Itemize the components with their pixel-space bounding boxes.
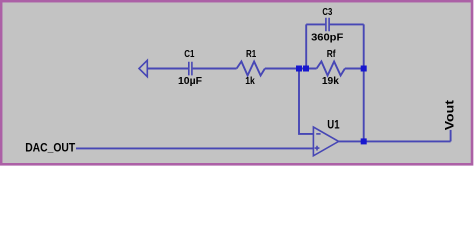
svg-text:Vout: Vout — [442, 100, 456, 130]
svg-text:C1: C1 — [184, 49, 195, 60]
resistor Rf — [317, 62, 345, 76]
svg-text:DAC_OUT: DAC_OUT — [25, 141, 76, 155]
wire — [299, 69, 313, 134]
wire — [265, 68, 317, 70]
svg-text:10µF: 10µF — [178, 76, 202, 87]
resistor R1 — [237, 62, 265, 76]
wire — [345, 68, 364, 70]
wire — [305, 24, 307, 68]
node junction — [296, 66, 302, 72]
wire — [306, 23, 325, 25]
capacitor C3 — [326, 18, 329, 31]
svg-text:Rf: Rf — [327, 49, 336, 60]
wire — [339, 140, 451, 142]
op-amp U1 — [313, 127, 338, 156]
svg-text:C3: C3 — [322, 7, 332, 18]
svg-text:360pF: 360pF — [311, 32, 343, 43]
svg-text:1k: 1k — [245, 76, 255, 87]
svg-text:U1: U1 — [327, 118, 339, 132]
node junction — [303, 66, 309, 72]
svg-text:19k: 19k — [322, 76, 339, 87]
input port arrow — [139, 60, 147, 76]
wire — [363, 24, 365, 141]
node junction — [361, 66, 367, 72]
svg-text:R1: R1 — [246, 49, 257, 60]
wire — [147, 68, 188, 70]
node junction — [361, 138, 367, 144]
wire — [450, 130, 452, 142]
wire — [330, 23, 364, 25]
wire — [76, 147, 313, 149]
capacitor C1 — [189, 62, 192, 76]
wire — [193, 68, 237, 70]
